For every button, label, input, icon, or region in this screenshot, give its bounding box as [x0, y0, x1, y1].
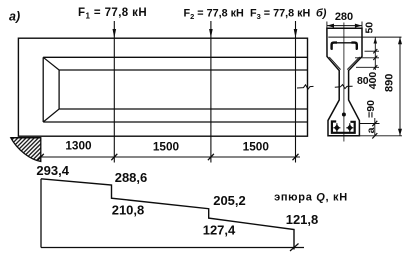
ladder tick at 67	[373, 65, 377, 69]
section centroid dot	[342, 113, 346, 117]
beam right end break mark	[297, 85, 314, 89]
load line F1	[113, 21, 117, 163]
beam panel outer bottom line	[43, 121, 307, 123]
svg-text:1500: 1500	[153, 140, 180, 154]
section ext line y67	[356, 66, 379, 68]
svg-text:210,8: 210,8	[112, 203, 145, 218]
section slab line (50)	[328, 36, 401, 38]
svg-text:a: a	[365, 127, 377, 133]
beam panel inner left edge	[58, 70, 60, 109]
svg-text:1500: 1500	[243, 140, 270, 154]
ladder tick at 57	[373, 56, 377, 60]
load line F2	[209, 21, 213, 163]
dimension tick at F2	[208, 154, 214, 160]
dimension tick at support	[38, 154, 44, 160]
dimension line (1300/1500/1500)	[41, 156, 300, 158]
svg-text:280: 280	[335, 11, 353, 23]
dimension tick at F1	[111, 154, 117, 160]
section 890 dimension line	[398, 37, 402, 136]
load line F3	[294, 21, 298, 163]
section outline	[327, 28, 362, 136]
svg-text:1300: 1300	[65, 139, 92, 153]
svg-text:288,6: 288,6	[115, 170, 148, 185]
section inner taper line left	[329, 57, 340, 70]
svg-text:127,4: 127,4	[203, 222, 236, 237]
section bottom extension line	[359, 135, 402, 137]
ladder tick at 135.8	[372, 133, 377, 138]
svg-text:а): а)	[9, 10, 20, 24]
ladder tick at 123.5	[372, 121, 377, 126]
Q diagram stepped top line	[41, 179, 294, 250]
section inner contour left hook thick	[332, 43, 337, 50]
beam panel outer top line	[43, 56, 307, 58]
svg-text:205,2: 205,2	[213, 193, 246, 208]
section inner contour top flange	[332, 43, 357, 50]
support corbel hatched body	[11, 138, 41, 162]
section stirrup	[332, 122, 355, 133]
section ext line a level	[359, 123, 379, 125]
beam panel bottom chamfer	[43, 109, 59, 122]
section ext line y57	[365, 50, 380, 52]
section centerline	[343, 23, 345, 142]
beam panel inner bottom line	[59, 108, 307, 110]
section dim ladder upper segment	[374, 37, 376, 70]
svg-text:б): б)	[316, 8, 327, 20]
dimension tick at F3	[293, 154, 299, 160]
strand symbol right	[346, 123, 353, 132]
svg-text:121,8: 121,8	[286, 212, 319, 227]
ladder tick at 38	[373, 49, 377, 53]
beam outer rectangle	[18, 38, 307, 136]
beam panel left edge	[42, 57, 44, 122]
section inner contour right hook thick	[351, 43, 356, 50]
beam panel top chamfer	[43, 57, 59, 70]
Q diagram end tick	[290, 244, 299, 252]
Q diagram left edge	[40, 179, 42, 248]
section dim segment a	[374, 118, 376, 136]
section web break mark	[335, 85, 353, 89]
Q diagram baseline	[41, 247, 304, 249]
section inner taper line right	[347, 57, 359, 70]
svg-text:=90: =90	[365, 100, 377, 118]
svg-text:80: 80	[357, 75, 369, 87]
beam panel inner top line	[59, 69, 307, 71]
svg-text:400: 400	[367, 72, 379, 90]
svg-text:эпюра Q, кН: эпюра Q, кН	[274, 192, 348, 204]
strand symbol left	[333, 123, 340, 132]
svg-text:890: 890	[384, 74, 396, 92]
svg-text:293,4: 293,4	[36, 163, 69, 178]
support corbel top line	[11, 137, 41, 139]
section 280 dimension line with arrows	[327, 22, 362, 29]
svg-text:50: 50	[363, 22, 375, 34]
